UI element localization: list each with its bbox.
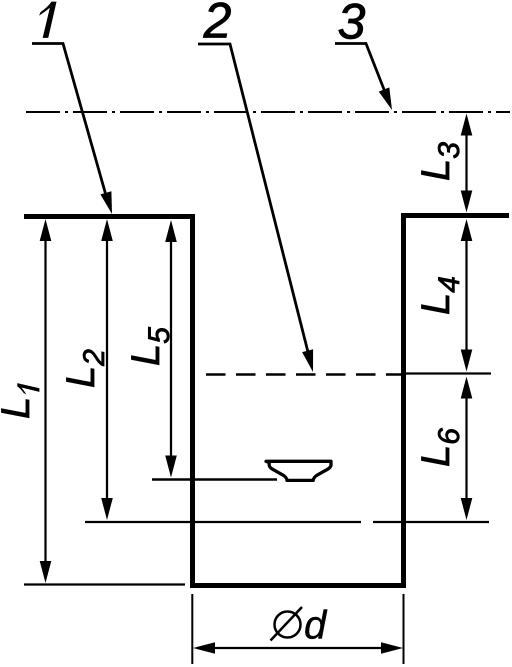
diameter extension line right	[403, 594, 405, 664]
lower level line left segment	[85, 521, 361, 523]
label L3	[421, 142, 459, 179]
well U outline	[193, 213, 404, 586]
dimension L5 top arrow	[165, 220, 177, 242]
well left wall top edge	[24, 214, 194, 219]
callout label 3	[339, 4, 365, 39]
diameter symbol slash	[271, 607, 303, 641]
dimension L2 bottom arrow	[101, 498, 113, 520]
label L4	[421, 277, 459, 314]
dimension L5 bottom arrow	[165, 456, 177, 478]
dimension d right arrow	[381, 642, 403, 654]
well right wall top edge	[401, 213, 509, 218]
dimension L5 line	[170, 228, 172, 470]
label d	[305, 610, 327, 639]
label L6	[421, 428, 459, 466]
dimension L1 line	[44, 227, 46, 575]
leader line 2	[198, 44, 309, 356]
lower level line right segment	[373, 521, 489, 523]
bottom extension line	[24, 583, 185, 585]
dimension L2 top arrow	[101, 219, 113, 241]
callout label 2	[203, 3, 230, 38]
label L5	[131, 327, 169, 365]
diameter symbol circle	[275, 612, 301, 638]
leader arrow 2	[302, 349, 313, 372]
dimension L4 line	[465, 227, 467, 364]
dimension L1 bottom arrow	[40, 561, 52, 583]
centerline (dash-dot axis)	[26, 111, 510, 113]
dimension L3 line	[465, 122, 467, 205]
dimension L6 bottom arrow	[461, 498, 473, 520]
dimension d left arrow	[193, 642, 215, 654]
dimension L2 line	[106, 227, 108, 512]
dimension d line	[200, 647, 396, 649]
float symbol	[266, 461, 331, 480]
dimension L3 top arrow	[461, 114, 473, 136]
water level extension right	[401, 372, 491, 374]
label L2	[66, 350, 104, 387]
label L1	[1, 384, 39, 418]
water level dashed line	[206, 373, 403, 375]
dimension L4 bottom arrow	[461, 350, 473, 372]
dimension L4 top arrow	[461, 219, 473, 241]
L5 extension line	[152, 478, 277, 480]
dimension L3 bottom arrow	[461, 191, 473, 213]
leader line 3	[335, 44, 385, 93]
leader arrow 3	[379, 87, 392, 110]
dimension L6 line	[465, 385, 467, 513]
callout label 1	[40, 2, 56, 38]
dimension L6 top arrow	[461, 377, 473, 399]
dimension L1 top arrow	[40, 219, 52, 241]
diameter extension line left	[191, 594, 193, 664]
leader arrow 1	[100, 191, 112, 214]
leader line 1	[32, 44, 109, 207]
